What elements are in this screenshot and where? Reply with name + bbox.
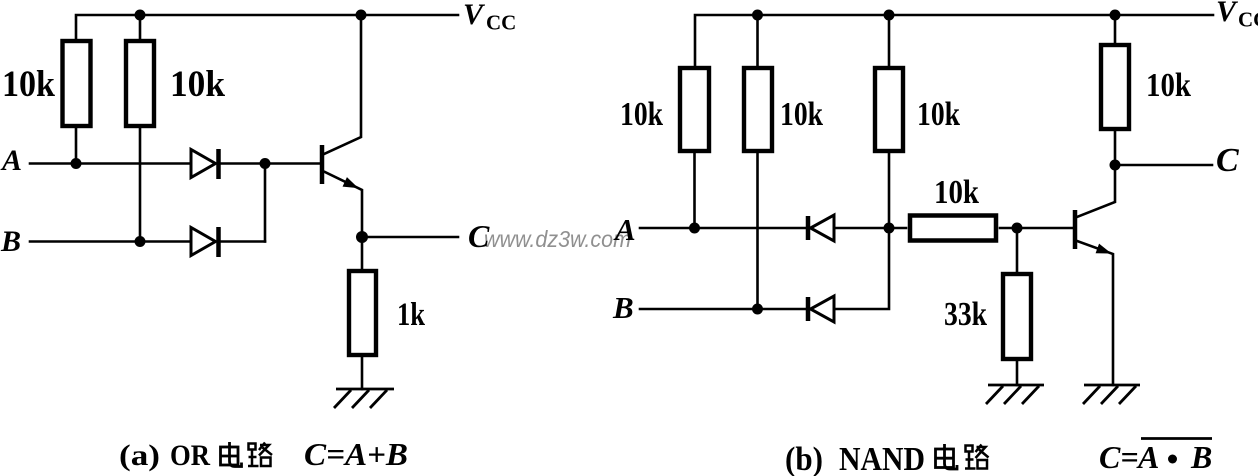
svg-text:(a): (a) xyxy=(119,439,160,472)
node dot base-33k (b) xyxy=(1012,223,1023,234)
wire emitter Q1 xyxy=(325,172,362,237)
node dot diode junction (a) xyxy=(260,158,271,169)
svg-text:33k: 33k xyxy=(944,296,987,333)
ground emitter (b) xyxy=(1083,385,1140,404)
wire 1k bottom lead xyxy=(361,357,364,389)
wire input B (a) xyxy=(30,240,191,243)
wire collector Q2 xyxy=(1077,131,1115,217)
svg-text:10k: 10k xyxy=(2,64,55,105)
node dot B-R4 (b) xyxy=(752,304,763,315)
node dot B-R2 (a) xyxy=(135,236,146,247)
transistor Q1 emitter arrow xyxy=(343,178,357,188)
wire R6 to base node xyxy=(1000,227,1072,230)
wire emitter Q2 xyxy=(1077,241,1113,385)
resistor 1k (a) xyxy=(349,271,376,355)
diode D1 (a) A input xyxy=(191,149,219,179)
svg-text:A: A xyxy=(1136,439,1159,475)
svg-text:10k: 10k xyxy=(1146,67,1191,104)
svg-text:B: B xyxy=(1190,439,1212,475)
svg-text:V: V xyxy=(463,0,486,31)
resistor R4 10k (b) xyxy=(744,68,772,151)
wire D2 cathode to node xyxy=(221,240,265,243)
wire input A (b) xyxy=(640,227,806,230)
resistor R1 10k (a) xyxy=(63,41,91,126)
svg-text:OR: OR xyxy=(170,439,210,472)
svg-text:10k: 10k xyxy=(620,96,663,133)
caption glyph dian (a) xyxy=(221,442,242,467)
svg-text:CC: CC xyxy=(486,11,516,35)
formula bullet xyxy=(1168,455,1177,464)
wire output C (b) xyxy=(1115,164,1212,167)
wire R5 bottom lead to B corner xyxy=(834,153,889,309)
node dot diode junction (b) xyxy=(884,223,895,234)
svg-text:C=A+B: C=A+B xyxy=(304,436,408,472)
caption glyph lu (b) xyxy=(965,445,989,469)
node dot rail-R4 (b) xyxy=(752,10,763,21)
resistor R6 10k horizontal (b) xyxy=(910,216,996,241)
svg-text:10k: 10k xyxy=(780,96,823,133)
node dot rail-R2 xyxy=(135,10,146,21)
transistor Q1 base bar xyxy=(320,145,325,184)
node dot rail-R7 (b) xyxy=(1110,10,1121,21)
wire R4 top lead xyxy=(756,15,759,66)
svg-text:CC: CC xyxy=(1238,8,1258,32)
wire D3 anode to node xyxy=(834,227,906,230)
svg-text:NAND: NAND xyxy=(839,441,925,476)
wire diode-OR vertical xyxy=(264,164,267,242)
node dot A-R3 (b) xyxy=(689,223,700,234)
node dot collector C (b) xyxy=(1110,160,1121,171)
resistor R8 33k (b) xyxy=(1003,274,1031,359)
svg-text:www.dz3w.com: www.dz3w.com xyxy=(484,226,631,252)
diode D2 (a) B input xyxy=(191,227,219,257)
wire 33k top lead xyxy=(1016,228,1019,272)
node dot emitter output (a) xyxy=(356,231,368,243)
wire R2 top lead xyxy=(139,15,142,41)
wire 1k top lead xyxy=(361,237,364,269)
transistor Q2 base bar xyxy=(1073,210,1078,249)
wire R1 bottom lead xyxy=(75,126,78,164)
transistor Q2 emitter arrow xyxy=(1096,244,1110,253)
wire collector Q1 xyxy=(324,15,361,154)
diode D3 (b) A input xyxy=(808,215,834,241)
svg-text:10k: 10k xyxy=(917,96,960,133)
resistor R7 10k (b) xyxy=(1101,45,1129,129)
wire VCC rail (a) xyxy=(76,15,458,41)
diode D4 (b) B input xyxy=(808,296,834,322)
wire VCC rail (b) xyxy=(695,15,1213,66)
node dot A-R1 (a) xyxy=(71,158,82,169)
resistor R2 10k (a) xyxy=(126,41,154,126)
resistor R5 10k (b) xyxy=(875,68,903,151)
wire R7 top lead xyxy=(1114,15,1117,43)
wire R5 top lead xyxy=(888,15,891,66)
svg-text:10k: 10k xyxy=(934,174,979,211)
svg-text:A: A xyxy=(0,144,22,177)
wire R2 bottom lead xyxy=(139,126,142,242)
svg-text:V: V xyxy=(1216,0,1239,28)
wire 33k bottom lead xyxy=(1016,361,1019,385)
node dot rail-collector (a) xyxy=(356,10,367,21)
wire R3 bottom lead xyxy=(693,153,696,228)
wire D1 cathode to base xyxy=(221,162,320,165)
svg-text:1k: 1k xyxy=(397,297,426,333)
svg-text:10k: 10k xyxy=(170,64,225,105)
svg-text:B: B xyxy=(0,225,21,258)
svg-text:C: C xyxy=(1216,142,1239,179)
svg-text:(b): (b) xyxy=(785,441,823,476)
svg-text:C: C xyxy=(468,218,490,254)
caption glyph lu (a) xyxy=(248,443,272,467)
wire input B (b) xyxy=(640,308,806,311)
node dot rail-R5 (b) xyxy=(884,10,895,21)
svg-text:A: A xyxy=(613,212,636,247)
svg-text:C=: C= xyxy=(1099,439,1139,475)
ground 33k (b) xyxy=(986,385,1044,404)
svg-text:B: B xyxy=(612,290,634,325)
wire output C (a) xyxy=(362,236,458,239)
formula overline xyxy=(1141,437,1212,440)
ground (a) xyxy=(334,389,394,408)
caption glyph dian (b) xyxy=(936,444,958,469)
resistor R3 10k (b) xyxy=(680,68,709,151)
wire R4 bottom lead xyxy=(756,153,759,309)
wire input A (a) xyxy=(30,162,191,165)
